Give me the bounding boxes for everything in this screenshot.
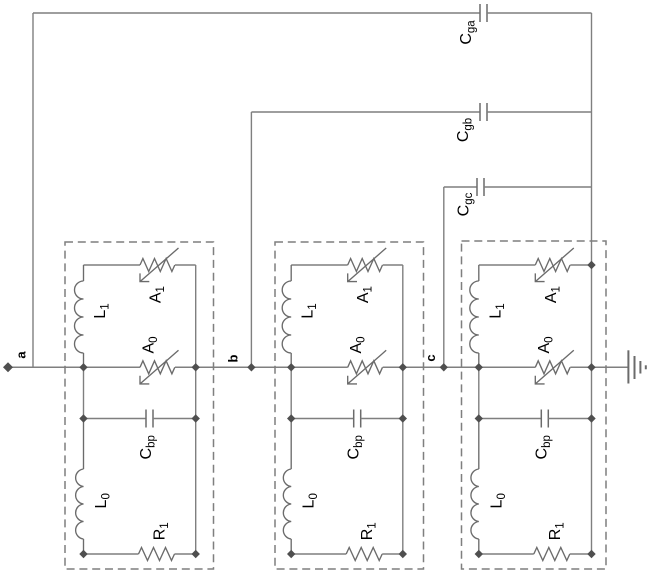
inductor L1 block 2 bbox=[290, 265, 292, 281]
capacitor Cga bbox=[479, 4, 481, 22]
node: block 2 bottom right corner bbox=[399, 550, 407, 558]
wire: vertical from node a up to Cga wire bbox=[32, 13, 34, 367]
wire: block 1 bottom wire left segment bbox=[84, 553, 139, 555]
variable arrow of A1 block 3 bbox=[535, 248, 574, 282]
node: block 3 left rail x Cbp wire bbox=[475, 414, 483, 422]
node: block 3 left rail x main line bbox=[475, 363, 483, 371]
variable arrow of A0 block 1 bbox=[140, 350, 179, 384]
node: block 2 left rail x main line bbox=[287, 363, 295, 371]
variable arrow of A1 block 1 bbox=[140, 248, 179, 282]
node: block 2 bottom left corner bbox=[287, 550, 295, 558]
ground symbol bbox=[628, 350, 645, 383]
capacitor Cbp block 3 bbox=[540, 410, 542, 428]
resistor R1 block 1 bbox=[139, 548, 175, 561]
wire: vertical from node c up to Cgc wire bbox=[443, 187, 445, 367]
dashed enclosure of resonator block 2 bbox=[275, 242, 424, 569]
resistor A0 block 2 zigzag bbox=[348, 361, 383, 374]
inductor L0 block 1 bbox=[83, 419, 85, 470]
node c junction bbox=[440, 363, 448, 371]
svg-text:c: c bbox=[423, 354, 438, 361]
resistor A0 block 1 zigzag bbox=[140, 361, 175, 374]
wire: main line from terminal a to A0 of block 1 bbox=[10, 366, 140, 368]
node: block 1 bottom left corner bbox=[79, 550, 87, 558]
variable arrow of A1 block 2 bbox=[348, 248, 387, 282]
wire: block 2 right rail bbox=[402, 265, 404, 554]
node: block 3 top right (bus junction) bbox=[587, 261, 595, 269]
wire: net b top horizontal bbox=[251, 111, 480, 113]
wire: main line A0 block2 to A0 block3 bbox=[383, 366, 536, 368]
wire: Cgb right to right vertical bbox=[487, 111, 592, 113]
wire: block 1 Cbp wire right segment bbox=[153, 418, 196, 420]
wire: net a top horizontal bbox=[33, 12, 480, 14]
wire: Cga right to right vertical bbox=[487, 12, 592, 14]
wire: block 2 Cbp wire left segment bbox=[291, 418, 354, 420]
resistor R1 block 3 bbox=[534, 548, 570, 561]
wire: block 1 top wire left segment bbox=[84, 264, 141, 266]
svg-text:b: b bbox=[226, 354, 241, 362]
wire: vertical from node b up to Cgb wire bbox=[250, 112, 252, 367]
dashed enclosure of resonator block 1 bbox=[65, 242, 214, 569]
wire: block 3 bottom wire left segment bbox=[479, 553, 534, 555]
wire: block 2 top wire right segment bbox=[383, 264, 403, 266]
wire: block 3 top wire left segment bbox=[479, 264, 536, 266]
resistor A1 block 2 zigzag bbox=[348, 259, 383, 272]
wire: block 3 right rail bbox=[591, 265, 593, 554]
wire: Cgc right to right vertical bbox=[484, 186, 592, 188]
wire: block 2 left rail main to Cbp bbox=[290, 367, 292, 418]
node: block 3 right rail x main line bbox=[587, 363, 595, 371]
node: block 3 bottom left corner bbox=[475, 550, 483, 558]
wire: block 1 right rail bbox=[195, 265, 197, 554]
wire: main line A0 block1 to A0 block2 bbox=[175, 366, 348, 368]
node: block 1 left rail x main line bbox=[79, 363, 87, 371]
node: block 2 right rail x Cbp wire bbox=[399, 414, 407, 422]
wire: block 2 top wire left segment bbox=[291, 264, 348, 266]
wire: block 1 left rail main to Cbp bbox=[83, 367, 85, 418]
wire: right vertical bus x=591.5 bbox=[591, 13, 593, 265]
wire: block 3 Cbp wire left segment bbox=[479, 418, 542, 420]
capacitor Cgb bbox=[479, 103, 481, 121]
wire: block 3 Cbp wire right segment bbox=[548, 418, 591, 420]
capacitor Cbp block 2 bbox=[353, 410, 355, 428]
capacitor Cbp block 1 bbox=[145, 410, 147, 428]
node: block 3 bottom right corner bbox=[587, 550, 595, 558]
node: block 1 right rail x Cbp wire bbox=[192, 414, 200, 422]
node a terminal diamond bbox=[3, 362, 13, 372]
wire: block 3 bottom wire right segment bbox=[570, 553, 592, 555]
variable arrow of A0 block 2 bbox=[348, 350, 387, 384]
dashed enclosure of resonator block 3 bbox=[462, 241, 607, 569]
wire: block 2 Cbp wire right segment bbox=[361, 418, 403, 420]
wire: block 1 bottom wire right segment bbox=[175, 553, 196, 555]
wire: block 1 top wire right segment bbox=[175, 264, 196, 266]
resistor A0 block 3 zigzag bbox=[535, 361, 570, 374]
inductor L1 block 3 bbox=[478, 265, 480, 281]
inductor L0 block 3 bbox=[478, 419, 480, 470]
node: block 1 left rail x Cbp wire bbox=[79, 414, 87, 422]
wire: block 2 bottom wire left segment bbox=[291, 553, 346, 555]
variable arrow of A0 block 3 bbox=[535, 350, 574, 384]
wire: block 3 top wire right segment bbox=[570, 264, 591, 266]
wire: net c top horizontal bbox=[444, 186, 477, 188]
node: block 2 right rail x main line bbox=[399, 363, 407, 371]
inductor L0 block 2 bbox=[290, 419, 292, 470]
node: block 2 left rail x Cbp wire bbox=[287, 414, 295, 422]
wire: block 1 Cbp wire left segment bbox=[84, 418, 147, 420]
node: block 3 right rail x Cbp wire bbox=[587, 414, 595, 422]
wire: main line A0 block3 to ground bbox=[570, 366, 628, 368]
resistor R1 block 2 bbox=[346, 548, 382, 561]
wire: block 3 left rail main to Cbp bbox=[478, 367, 480, 418]
inductor L1 block 1 bbox=[83, 265, 85, 281]
svg-text:a: a bbox=[14, 351, 29, 359]
node b junction bbox=[247, 363, 255, 371]
resistor A1 block 3 zigzag bbox=[535, 259, 570, 272]
node: block 1 right rail x main line bbox=[192, 363, 200, 371]
capacitor Cgc bbox=[476, 178, 478, 196]
resistor A1 block 1 zigzag bbox=[140, 259, 175, 272]
wire: block 2 bottom wire right segment bbox=[382, 553, 403, 555]
node: block 1 bottom right corner bbox=[192, 550, 200, 558]
